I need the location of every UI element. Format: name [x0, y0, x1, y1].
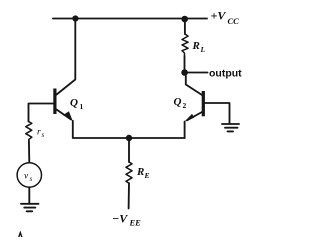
wire RL bottom lead [184, 56, 186, 73]
svg-text:v: v [24, 172, 29, 182]
svg-text:R: R [192, 40, 200, 52]
wire Q1 collector vertical [57, 19, 76, 95]
resistor rs [26, 122, 32, 141]
ground (right, Q2 base) [222, 123, 239, 125]
resistor RL [182, 34, 188, 56]
caret mark bottom-left [19, 233, 22, 238]
wire RE top lead [128, 138, 130, 162]
svg-text:+V: +V [211, 9, 227, 23]
node top junction (RL) [181, 16, 188, 23]
svg-text:R: R [136, 166, 144, 178]
wire output lead [188, 72, 208, 74]
svg-text:−V: −V [112, 212, 128, 226]
transistor Q1 base bar [53, 89, 56, 115]
transistor Q1 emitter arrow [65, 111, 73, 121]
svg-text:L: L [200, 45, 206, 54]
transistor Q2 emitter arrow [184, 114, 194, 122]
svg-text:1: 1 [80, 102, 84, 111]
svg-text:s: s [30, 175, 33, 183]
wire RE to -VEE [128, 183, 130, 208]
node top junction (Q1 collector) [72, 15, 78, 21]
svg-text:r: r [37, 128, 41, 138]
wire Q1 emitter down [73, 121, 185, 138]
wire Q2 base lead [205, 103, 230, 124]
svg-text:E: E [144, 171, 150, 180]
wire Q1 base lead [29, 104, 54, 122]
wire rs to vs [28, 141, 30, 163]
node emitter junction dot [126, 135, 132, 141]
transistor Q1 emitter [57, 110, 72, 120]
transistor Q2 emitter [187, 112, 202, 120]
svg-text:Q: Q [70, 97, 78, 109]
transistor Q2 base bar [202, 91, 205, 116]
svg-text:EE: EE [129, 218, 142, 228]
wire vs to ground [28, 187, 30, 204]
svg-text:CC: CC [228, 16, 240, 26]
wire Q2 emitter down [184, 122, 186, 139]
svg-text:output: output [209, 68, 242, 80]
svg-text:s: s [42, 131, 45, 139]
resistor RE [126, 162, 132, 183]
wire top rail [53, 18, 207, 20]
node output dot [181, 69, 188, 76]
wire RL top lead [184, 19, 186, 34]
source vs [17, 163, 41, 187]
svg-text:Q: Q [174, 96, 182, 108]
ground (left, below vs) [21, 203, 39, 205]
svg-text:2: 2 [183, 101, 187, 110]
wire Q2 collector vertical [186, 76, 202, 95]
